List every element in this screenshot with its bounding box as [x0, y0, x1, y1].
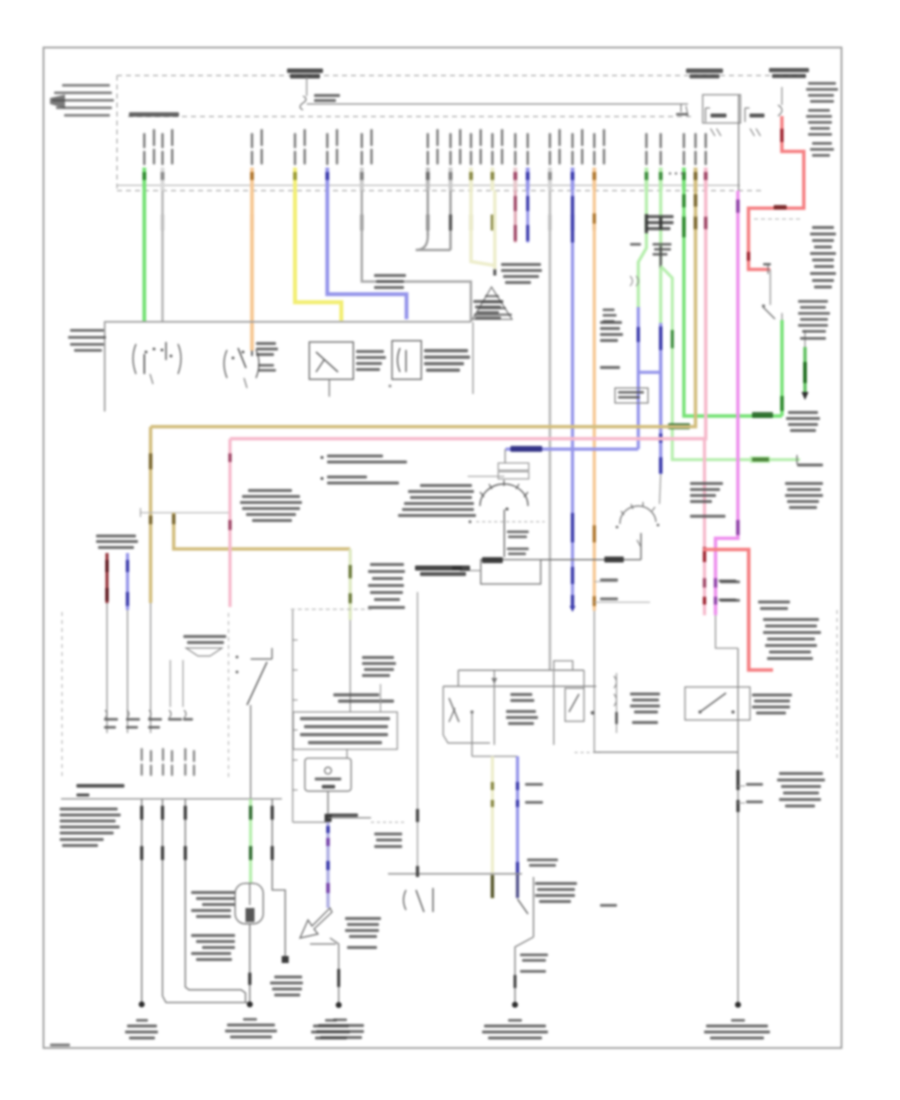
label hot at all times (left)	[50, 84, 114, 117]
ground label G5t	[311, 1019, 350, 1040]
text left margin 600	[600, 321, 623, 369]
park pin switch bar	[388, 873, 522, 875]
relay pin 553	[553, 671, 555, 745]
rotary switch lower small	[616, 502, 660, 528]
wire from box to bus	[738, 95, 740, 191]
fuse row with rotated labels	[143, 129, 707, 191]
big text right 618	[763, 618, 821, 660]
wire light green W2 branch	[661, 266, 800, 464]
relay K2 text	[424, 349, 470, 372]
text near cluster connectors	[653, 243, 672, 256]
wire orange F15	[593, 191, 596, 611]
relay K2 coil in box	[392, 341, 421, 380]
bus line from fuse 15A	[307, 103, 688, 105]
relay K1 text	[356, 350, 386, 371]
relay block bar A	[458, 670, 584, 686]
ground dot G6	[735, 1002, 741, 1008]
ground dot G2	[336, 1002, 342, 1008]
label 15A mid right	[686, 69, 723, 79]
shift lock text left paragraph	[501, 263, 542, 284]
panel link line	[452, 566, 481, 571]
transmission label	[76, 784, 124, 797]
gear text small	[507, 531, 529, 556]
fuse F main 15A with wire	[300, 77, 340, 110]
wire gray below tan	[150, 603, 152, 733]
relay pin 494	[491, 670, 497, 745]
wire green F1	[142, 191, 146, 322]
paragraph warning box	[293, 712, 397, 749]
wire dark red connector	[105, 553, 108, 603]
connector C bands below bus	[144, 215, 705, 231]
transmission text block	[60, 808, 121, 848]
wire light green W2	[659, 191, 662, 324]
wire green W3 up segment	[780, 320, 783, 416]
right margin text bottom	[777, 772, 825, 808]
red circuit fuse connector	[778, 87, 782, 116]
range switch note paragraph	[690, 482, 726, 518]
text right mid low	[758, 601, 790, 611]
rotary position switch arc	[480, 480, 528, 557]
sensor dashed boundary 228	[228, 613, 230, 778]
bottom bus line right	[594, 751, 738, 753]
wire below capsule	[249, 924, 251, 1005]
connector box top right	[703, 95, 741, 123]
junction dots above bus	[669, 172, 683, 174]
funnel text	[183, 635, 226, 656]
wire gray below orange F15	[593, 611, 595, 752]
wire blue F14	[570, 191, 576, 612]
pin label columns transmission	[141, 748, 195, 776]
labels right of pale wires	[525, 783, 543, 804]
stub below relay K1	[329, 379, 391, 396]
park rod dot	[512, 1002, 518, 1008]
text column right of red wire	[806, 82, 838, 157]
wire gray tail W2	[660, 474, 661, 504]
dashed stub right	[575, 752, 600, 754]
relay label box mid	[374, 274, 406, 289]
trans wire 3	[185, 799, 245, 1003]
relay block bar B	[443, 685, 596, 687]
wire red hot feed	[749, 116, 804, 269]
nav label line	[328, 814, 371, 818]
wire 738 vertical	[737, 648, 739, 1005]
trans wire 5	[272, 799, 289, 963]
wire pale yellow to ground	[491, 756, 494, 898]
shift lock text paragraph	[398, 476, 504, 517]
park switch blue lower	[518, 874, 529, 914]
wire yellow F4	[295, 191, 341, 321]
connector bracket 616	[614, 673, 617, 733]
wire blue W1 lower	[638, 307, 660, 449]
arrow symbol bottom left	[300, 908, 339, 1004]
wire gray F2	[161, 191, 164, 322]
wire green W3	[668, 191, 782, 430]
text above paragraph box	[333, 684, 394, 712]
dashed boundary right	[836, 610, 838, 760]
dashed line under red horizontal	[754, 218, 802, 220]
wire pink vertical 230	[228, 439, 231, 607]
wire gray below violet	[716, 615, 739, 648]
ground label G3t	[125, 1019, 158, 1040]
switch marks center bottom	[404, 888, 434, 912]
wire pale yellow F10	[493, 191, 496, 276]
rotary switch A inside box	[133, 342, 181, 384]
wire gray F8	[449, 191, 451, 250]
trans wire 1	[141, 799, 143, 1005]
rotary switch B inside box	[224, 348, 259, 388]
under-dash fuse relay box outline	[105, 322, 473, 412]
wire 418 vertical	[417, 592, 419, 877]
relay switch box left	[443, 686, 490, 743]
connector text mid	[362, 656, 396, 677]
relay K1 in box	[309, 342, 353, 379]
bullet note rows	[321, 455, 408, 485]
ignition switch text	[256, 342, 278, 372]
relay pin 472	[470, 710, 473, 756]
ground dot G4	[247, 1001, 253, 1007]
solenoid text B	[191, 934, 235, 961]
label under-dash box	[68, 329, 106, 352]
joint connector triangle	[473, 287, 513, 319]
text right of brake box	[752, 694, 792, 715]
text right of wire 350	[368, 563, 405, 609]
right margin small	[797, 464, 823, 467]
trans wire green solenoid	[249, 799, 252, 884]
connector row	[104, 710, 193, 729]
wire violet W6	[716, 191, 738, 616]
label on dashed line (battery)	[287, 69, 323, 79]
label right of box top	[473, 300, 503, 320]
wire gray F13 long	[548, 191, 551, 671]
wire gray below 350	[349, 620, 351, 712]
wire blue connector	[126, 553, 129, 610]
text right of park switch	[520, 859, 577, 973]
text block right lower	[810, 226, 836, 289]
wire blue horizontal to shift solenoid	[506, 446, 639, 452]
ground label G6	[704, 1019, 770, 1040]
labels for pink violet connectors	[719, 580, 737, 602]
indicator panel box	[481, 557, 541, 584]
small verticals	[170, 660, 183, 707]
brake switch box	[685, 687, 750, 720]
right margin text B	[785, 482, 823, 509]
right margin text A	[786, 411, 820, 432]
under-hood fuse/relay box dashed outline	[117, 76, 806, 191]
small component box 615	[615, 388, 648, 403]
ground dot G3	[139, 1001, 145, 1007]
nav text bottom	[374, 833, 402, 849]
wire gray below blue conn	[127, 610, 129, 733]
text above wire pair 720	[720, 581, 740, 602]
wire tan2	[174, 513, 351, 549]
wire from switch to panel	[541, 533, 641, 563]
wire blue stub F12	[526, 191, 529, 243]
connector at red wire end	[763, 263, 771, 274]
connector bracket ticks	[630, 276, 639, 286]
wire light green W1	[638, 191, 646, 308]
wire blue W2 lower	[659, 323, 662, 474]
wire red lower loop	[703, 550, 773, 671]
wire gray below dark red	[106, 603, 108, 733]
relay bottom jumper	[472, 755, 518, 757]
relay text inside	[506, 693, 538, 725]
shift solenoid boxes	[498, 449, 529, 479]
relay switch box right	[565, 670, 594, 721]
wire tan W4	[151, 191, 696, 427]
page number	[50, 1044, 70, 1047]
wire blue below nav	[326, 822, 329, 908]
wire dark green arrow	[802, 330, 809, 400]
relay block top tab	[554, 661, 573, 670]
wire below nav box	[325, 791, 332, 822]
gray jumper horizontal	[141, 508, 231, 517]
brake switch components right	[762, 269, 782, 320]
label hot in on (right)	[769, 68, 809, 78]
wire tan vertical left	[149, 427, 152, 603]
wire blue to switch	[516, 756, 519, 874]
dashed level line	[469, 520, 545, 523]
trans wire 2	[163, 799, 248, 1003]
wire pale yellow F9	[471, 191, 495, 266]
text right lower small	[603, 309, 617, 323]
label left of W1	[630, 243, 641, 246]
ticks right of orange wire	[594, 582, 650, 603]
solenoid text A	[191, 891, 235, 918]
ground label center	[482, 1019, 548, 1040]
AT gear position label dark	[415, 566, 470, 577]
note paragraph with pointer	[240, 489, 302, 522]
solenoid text C	[270, 976, 303, 997]
labels on wire 738	[738, 783, 763, 803]
ground label G2	[316, 1019, 364, 1040]
range switch bottom	[236, 648, 272, 799]
gauge box boundary	[291, 609, 374, 822]
ground label G4t	[225, 1018, 277, 1039]
wire gray F7 with hook	[416, 191, 451, 250]
wire orange F3	[250, 191, 254, 351]
wire gray F6	[362, 191, 471, 322]
bus end connector ticks	[676, 104, 688, 116]
dashed nav line	[371, 821, 404, 823]
park switch drop	[515, 877, 534, 1005]
text right of connector 616	[630, 693, 660, 725]
sensor dashed boundary 62	[61, 612, 63, 780]
nav unit box	[305, 758, 351, 791]
link to nav box	[346, 749, 348, 758]
wire pink W5	[230, 191, 706, 439]
wire pink W5 lower	[703, 439, 706, 616]
wire pale green vertical 350	[349, 549, 352, 620]
shift solenoid capsule	[235, 883, 263, 923]
text label arrow	[345, 917, 381, 949]
wire blue F5	[327, 191, 406, 320]
connector pair label	[96, 535, 138, 550]
transmission case line	[61, 798, 282, 800]
text rows over cluster wires	[646, 215, 673, 230]
wire pink stub F11	[514, 191, 517, 243]
small text far left	[600, 579, 618, 907]
pins in connector box	[706, 108, 765, 136]
text right of green arrow	[798, 300, 830, 340]
